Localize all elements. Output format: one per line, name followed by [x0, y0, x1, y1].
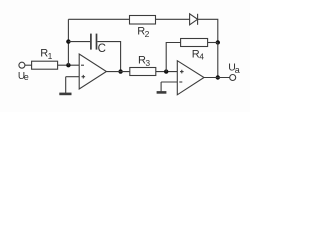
- wire: [208, 42, 218, 44]
- wire: [65, 77, 67, 93]
- node cap-junction: [66, 39, 70, 43]
- wire: [66, 76, 80, 78]
- wire: [106, 71, 129, 73]
- svg-text:1: 1: [48, 51, 53, 61]
- wire: [68, 18, 129, 20]
- node comparator-in: [164, 69, 168, 73]
- svg-text:a: a: [235, 65, 240, 75]
- wire: [68, 41, 90, 43]
- svg-text:3: 3: [145, 58, 150, 68]
- wire: [156, 18, 190, 20]
- svg-text:4: 4: [199, 52, 204, 62]
- wire: [58, 64, 80, 66]
- label Ua: [228, 62, 240, 75]
- label R2: [137, 26, 149, 39]
- label R1: [40, 47, 52, 61]
- op-amp U1: [79, 54, 106, 89]
- label Ue: [18, 71, 29, 82]
- resistor R2: [130, 16, 156, 25]
- resistor R3: [130, 68, 156, 76]
- wire: [166, 43, 180, 72]
- node output: [216, 75, 220, 79]
- ground: [59, 93, 71, 96]
- wire: [160, 82, 162, 91]
- wire: [204, 77, 230, 79]
- node summing: [66, 63, 70, 67]
- capacitor C: [91, 34, 97, 50]
- resistor R4: [181, 39, 208, 47]
- node diode-R4: [216, 40, 220, 44]
- svg-text:2: 2: [145, 29, 150, 39]
- node integrator-out: [118, 69, 122, 73]
- ground: [157, 91, 167, 94]
- wire: [198, 19, 218, 42]
- terminal Ua: [230, 75, 236, 81]
- op-amp U2: [177, 61, 204, 95]
- label R3: [138, 54, 150, 68]
- wire: [97, 42, 120, 72]
- svg-text:C: C: [98, 43, 106, 55]
- svg-text:e: e: [24, 72, 29, 82]
- wire: [156, 71, 178, 73]
- diode D1: [190, 14, 198, 25]
- label R4: [192, 48, 204, 61]
- wire: [217, 43, 219, 78]
- terminal Ue: [19, 62, 25, 68]
- resistor R1: [32, 61, 58, 69]
- wire: [25, 64, 32, 66]
- wire: [161, 81, 177, 83]
- wire: [67, 19, 69, 65]
